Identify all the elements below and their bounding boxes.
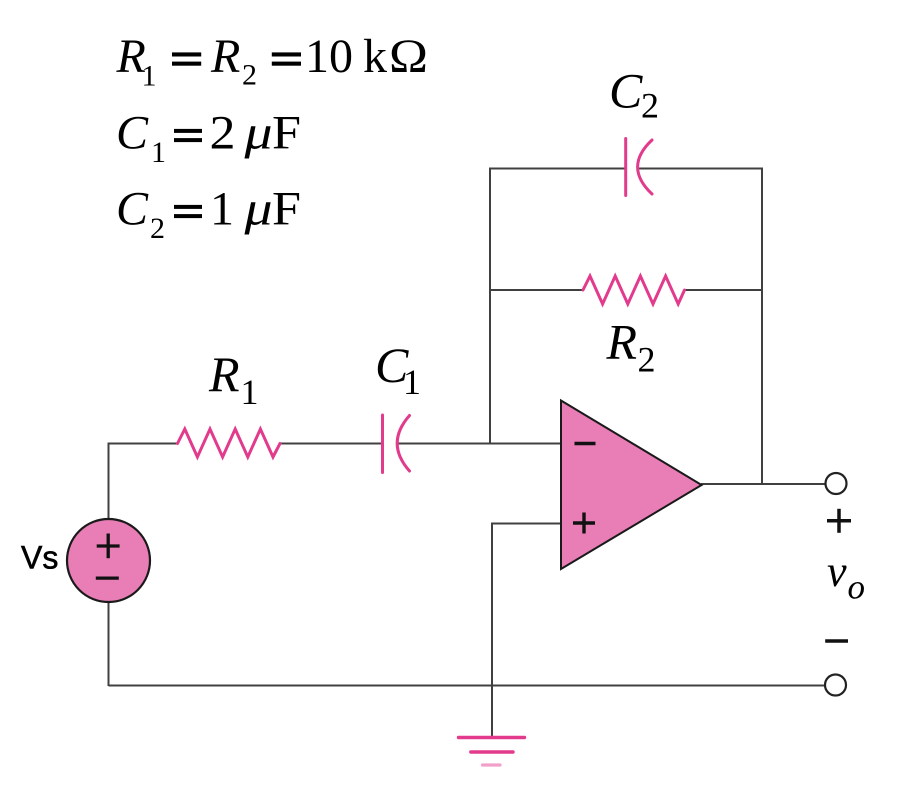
- svg-text:o: o: [848, 568, 866, 607]
- svg-text:2: 2: [150, 212, 165, 245]
- svg-text:C: C: [116, 183, 149, 236]
- svg-text:1: 1: [241, 372, 259, 412]
- svg-text:1: 1: [151, 136, 166, 169]
- svg-text:2: 2: [210, 107, 236, 160]
- svg-text:2: 2: [641, 86, 659, 126]
- svg-text:2: 2: [242, 59, 257, 92]
- svg-text:1: 1: [403, 362, 421, 402]
- svg-text:C: C: [116, 107, 149, 160]
- svg-text:Ω: Ω: [389, 30, 428, 83]
- svg-text:μ: μ: [243, 183, 272, 236]
- svg-text:Vs: Vs: [21, 540, 58, 576]
- svg-text:R: R: [210, 30, 240, 83]
- svg-text:R: R: [208, 346, 240, 402]
- svg-text:10: 10: [305, 30, 353, 83]
- svg-text:2: 2: [638, 340, 656, 380]
- svg-text:1: 1: [210, 183, 234, 236]
- svg-text:μ: μ: [243, 107, 272, 160]
- svg-text:v: v: [827, 547, 847, 596]
- svg-text:F: F: [272, 107, 301, 160]
- svg-text:R: R: [606, 314, 638, 370]
- svg-text:1: 1: [142, 60, 157, 93]
- svg-text:F: F: [272, 183, 301, 236]
- svg-text:k: k: [363, 30, 387, 83]
- svg-text:C: C: [609, 63, 643, 119]
